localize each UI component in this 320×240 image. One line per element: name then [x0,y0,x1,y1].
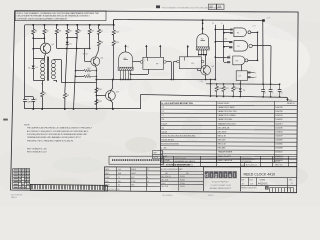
svg-text:NOTE 1: THIS SCHEMATIC - FURN: NOTE 1: THIS SCHEMATIC - FURNISHED ONLY … [17,12,100,15]
drawing number stamp above frame [156,5,160,8]
resistor R8 [97,41,100,46]
svg-text:T1: T1 [161,152,163,154]
wire ground rail left [25,108,140,110]
frame zone tick [3,119,8,121]
svg-text:1300377: 1300377 [275,135,282,137]
resistor R13 [95,99,98,104]
wire Q2 emitter chain [95,66,96,68]
resistor R2 branch [44,25,46,29]
contact finger strip [30,184,108,185]
resistor R18 [233,83,234,84]
svg-text:CAPACITOR 35V 10%: CAPACITOR 35V 10% [218,110,237,113]
svg-text:COPYRIGHT 1966 BY DIGITAL EQUI: COPYRIGHT 1966 BY DIGITAL EQUIPMENT CORP… [17,17,68,20]
svg-text:D1-D8: D1-D8 [161,123,166,125]
capacitor C1 [23,99,27,101]
wire mid ground rail [96,79,215,81]
wire [24,97,26,100]
svg-text:C7: C7 [161,115,163,117]
note box [15,11,106,21]
svg-text:NOTE:: NOTE: [24,124,30,126]
svg-text:FOR FREQUENCIES NOT SPECIFIED: FOR FREQUENCIES NOT SPECIFIED AS IS TERM… [27,133,88,136]
svg-text:DS: DS [118,185,120,187]
svg-text:10-4: 10-4 [118,169,121,171]
note tag box [153,151,163,159]
flip-flop FF1 [143,57,164,69]
wire left branch down [24,25,26,97]
DEC digital logo [205,171,209,178]
resistor R9b branch x89.7 [89,24,91,26]
title block left cells [104,167,106,191]
wire Q4 base from FF2 [197,69,199,71]
wire G1 to FF1 [133,61,141,63]
border frame [11,11,299,193]
ground symbol [286,97,288,99]
svg-text:18: 18 [218,5,222,9]
svg-text:D2: D2 [69,43,71,45]
wire +10V top rail [25,24,114,26]
transistor Q1 [40,43,50,53]
svg-text:TJ: TJ [118,177,120,179]
svg-text:DEC 3639: DEC 3639 [218,131,227,133]
output cell U4 [241,65,243,71]
svg-text:R15: R15 [115,42,118,44]
resistor R15 [112,41,115,46]
svg-text:ACCORDING TO FREQUENCY. FOR F: ACCORDING TO FREQUENCY. FOR FREQUENCIES … [27,130,89,133]
wire G1 pin link [131,74,149,76]
svg-text:1001610: 1001610 [275,115,282,117]
svg-text:DEC 6534: DEC 6534 [161,186,168,188]
svg-text:D1: D1 [28,67,30,69]
gate U2 [229,41,232,43]
transistor Q4 [201,65,211,75]
svg-text:HRB: HRB [118,173,121,175]
wire transformer return to R3 [42,80,44,91]
svg-text:4410-0-1: 4410-0-1 [258,183,268,186]
wire ground rail right [140,95,287,98]
svg-text:R2: R2 [46,31,48,33]
svg-text:PIN N ON EACH IS -15V: PIN N ON EACH IS -15V [27,150,47,153]
svg-text:WH: WH [118,181,121,183]
svg-text:THIS SCHEMATIC IS FURNISHED ON: THIS SCHEMATIC IS FURNISHED ONLY FOR TES… [162,6,223,9]
wire bus vertical inner [257,32,259,60]
resistor R16 [216,83,217,84]
node Q3 base [96,95,97,96]
svg-text:B: B [147,185,148,187]
svg-text:RES 4.7K: RES 4.7K [218,135,227,137]
svg-text:CS: CS [147,181,149,183]
wire secondary top [53,59,61,61]
svg-text:40: 40 [209,5,213,9]
svg-text:DEC 16-(331)-1034-B8: DEC 16-(331)-1034-B8 [105,189,120,191]
wire y84 rail [206,83,280,86]
svg-text:A, +10 IS SUPPLIED BEYOND THIS: A, +10 IS SUPPLIED BEYOND THIS [161,102,193,105]
svg-text:Q1: Q1 [161,127,164,129]
resistor R5 branch [67,25,69,29]
resistor R4 branch [56,25,58,29]
svg-text:DEC FORM NO.: DEC FORM NO. [163,195,174,197]
svg-text:+10 V: +10 V [252,25,256,27]
svg-text:R4: R4 [59,31,61,33]
svg-text:C1: C1 [161,107,163,109]
svg-text:C8: C8 [161,119,163,121]
wire Q3 emitter [110,100,113,103]
reed G1 pins [120,70,122,79]
svg-text:L - R7: L - R7 [161,148,166,150]
svg-text:RES 10K: RES 10K [218,140,227,142]
gate U3 [227,56,230,58]
wire U3 out [248,60,258,62]
parts list table [160,100,297,103]
node base junction [33,48,34,49]
svg-text:4410: 4410 [241,165,245,167]
wire G2 pin bus [199,54,207,56]
diode D8 [240,81,242,89]
svg-text:L1: L1 [127,46,129,48]
wire FF1 power stems [145,45,147,47]
svg-text:R.BEST 10-4-66: R.BEST 10-4-66 [175,158,186,160]
reed capsule G1 [119,52,133,67]
svg-text:FREQUENCY IN Hz. FREQUENCY RA: FREQUENCY IN Hz. FREQUENCY RANGE IS 70-3… [27,139,73,142]
svg-text:R5,R6,R13,R14,R16: R5,R6,R13,R14,R16 [161,144,178,146]
module handle outline [109,156,164,164]
transformer T1 [33,58,44,60]
gate U1 [230,29,233,31]
wire rail-link vertical [210,80,212,97]
resistor R6 branch [77,25,79,29]
svg-text:TERMINALS BROWNED UNIT AVAILAB: TERMINALS BROWNED UNIT AVAILABLE ON FREQ… [27,136,81,139]
capacitors C18 C19 C20 [262,84,263,85]
svg-text:1300365: 1300365 [275,144,282,146]
node square junction right end of rail [262,19,265,21]
svg-text:1: 1 [289,188,290,190]
svg-text:R2: R2 [237,46,239,48]
resistor R1 branch [33,25,35,29]
wire U1 out [251,32,258,34]
wire FF cross-coupling [166,61,171,63]
resistor R12 [95,88,98,93]
svg-text:R5: R5 [69,31,71,33]
node top-rail junctions [32,24,34,26]
svg-text:FIRST USED ON: FIRST USED ON [241,158,252,160]
resistor R14 branch [113,20,115,30]
svg-text:R3: R3 [44,93,46,95]
wire U2 out [252,45,271,47]
wire Q1 emitter [45,54,46,57]
svg-text:Q2,Q3: Q2,Q3 [161,131,167,133]
resistor R10 horizontal [76,70,85,72]
wire reed G1 top stub [125,44,127,46]
wire U2-out drop [270,46,272,84]
svg-text:DEC 2894-1B: DEC 2894-1B [218,127,230,129]
svg-text:1001766: 1001766 [275,111,282,113]
svg-text:1503100: 1503100 [275,131,282,133]
wire Q4 emitter [205,75,207,79]
wire cap top link [25,96,33,98]
svg-text:CODE: CODE [131,181,135,183]
svg-text:DRN: DRN [105,173,108,175]
svg-text:OPTION/MODEL: OPTION/MODEL [241,161,252,163]
transistor Q3 [106,91,116,101]
svg-text:CAPACITOR .01MFD: CAPACITOR .01MFD [218,114,237,117]
svg-text:C2: C2 [161,111,163,113]
transformer core [47,59,49,81]
wire bus vertical outer [262,22,264,84]
flip-flop FF2 [179,57,201,69]
svg-text:NUMBER: NUMBER [260,179,266,181]
svg-text:1600021: 1600021 [275,152,282,154]
svg-text:DEC FORM NO: DEC FORM NO [11,195,23,197]
module contacts [112,159,113,161]
wire y38 link2 [67,37,77,39]
wire FF2 power stem [187,45,189,47]
resistor R11 horizontal [76,76,85,78]
svg-text:R8: R8 [101,42,103,44]
svg-text:RES 68K: RES 68K [218,148,227,150]
svg-text:T1: T1 [41,84,43,86]
title block [160,155,297,157]
svg-text:RES 1.5K: RES 1.5K [218,144,227,146]
svg-text:R9: R9 [67,95,69,97]
reed G2 pins [198,50,200,55]
resistor R7 branch [98,25,100,30]
svg-text:R1: R1 [35,31,37,33]
wire secondary bottom [53,80,57,82]
wire Q1 base [33,48,40,50]
svg-text:1300390: 1300390 [275,140,282,142]
svg-text:1300385: 1300385 [275,148,282,150]
diode D2 [66,42,69,45]
reed capsule G2 [197,34,209,47]
svg-text:R13: R13 [98,101,101,103]
svg-text:1000029: 1000029 [275,119,282,121]
resistor R17 [223,83,224,84]
wire base link y38 [33,38,44,40]
svg-text:1001766: 1001766 [275,107,282,109]
wire gate input taps [215,29,230,31]
svg-text:TRANSFORMER: TRANSFORMER [218,151,233,154]
wire y82 link [61,82,96,84]
wire [33,97,35,100]
wire Q4 collector [205,55,207,66]
svg-text:SIZE: SIZE [131,185,134,187]
diode D1 [33,59,35,66]
wire ground jog up [140,95,142,110]
svg-text:PIN F ON EACH IS +10V: PIN F ON EACH IS +10V [27,147,48,150]
wire reed G2 top stub [202,20,204,33]
svg-text:C1: C1 [27,99,29,101]
wire Q3 base [96,95,105,97]
svg-text:A-PL-4410-0-1: A-PL-4410-0-1 [246,163,257,166]
svg-text:CODE: CODE [249,179,253,181]
svg-text:PART NO.: PART NO. [275,163,283,166]
capacitor C2 [31,99,35,101]
svg-text:R1: R1 [237,32,239,34]
svg-text:R6: R6 [79,31,81,33]
svg-text:DIST: DIST [131,177,135,179]
svg-text:C2: C2 [35,99,37,101]
svg-text:THE JUMPER IS AS SPECIFIED AS: THE JUMPER IS AS SPECIFIED AS -3V CHANGE… [27,127,93,130]
pin utilization grid [13,168,30,170]
svg-text:-3 GND: -3 GND [222,38,228,40]
svg-text:1500476: 1500476 [275,127,282,129]
wire Q2 base feed [57,48,90,50]
wire Q3 collector [110,88,113,91]
svg-text:CIRCUITS ARE PROPRIETARY IN NA: CIRCUITS ARE PROPRIETARY IN NATURE AND S… [17,15,91,18]
svg-text:D1: D1 [35,67,37,69]
svg-text:R3,R8, R9,R11: R3,R8, R9,R11 [161,140,174,142]
transistor Q2 [91,57,100,66]
